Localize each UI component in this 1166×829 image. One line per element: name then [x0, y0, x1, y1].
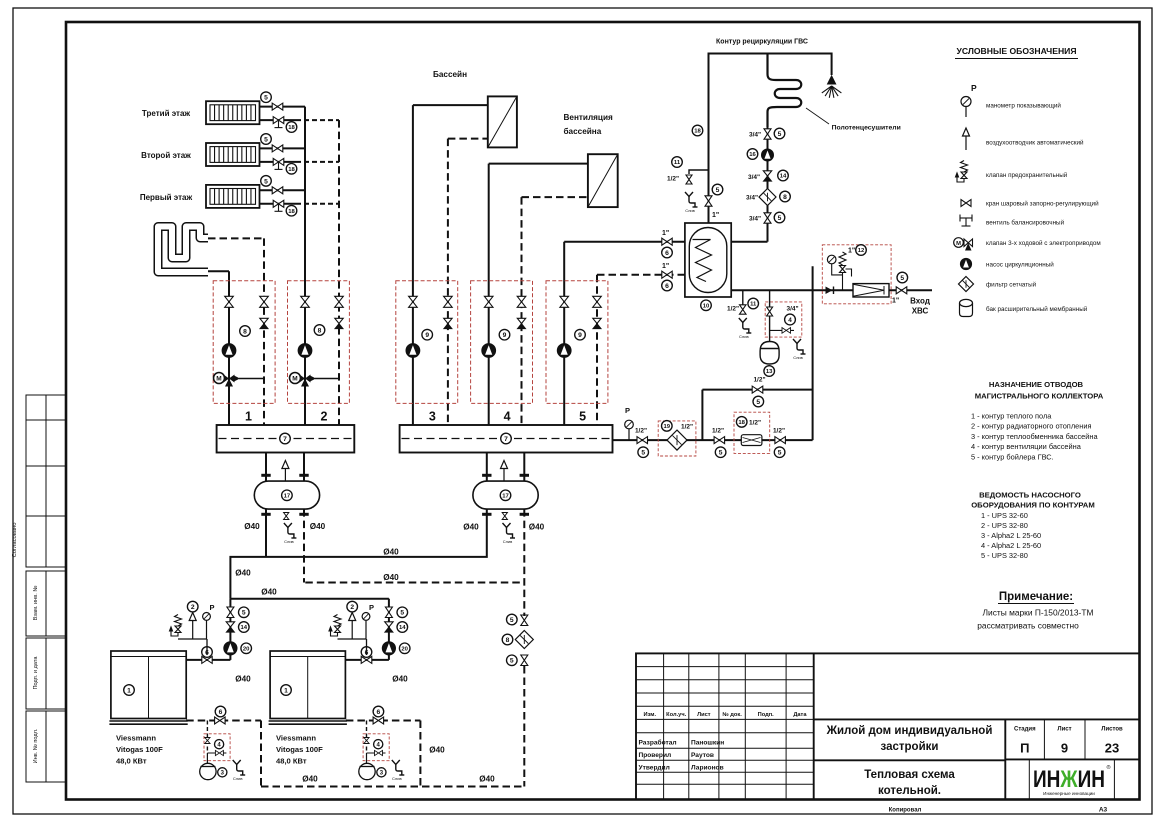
svg-text:Vitogas 100F: Vitogas 100F: [116, 745, 163, 754]
collector 2 body: [400, 425, 613, 453]
legend 3-way valve with actuator: [954, 238, 973, 251]
radiator return pipe dashed: [296, 203, 339, 205]
svg-text:48,0 КВт: 48,0 КВт: [116, 757, 147, 766]
circuit2 return riser: [338, 120, 340, 425]
svg-text:Изм.: Изм.: [644, 712, 657, 718]
air vent 2: [189, 613, 196, 640]
svg-text:18: 18: [288, 125, 295, 131]
svg-text:20: 20: [243, 646, 250, 652]
svg-text:3/4": 3/4": [749, 132, 761, 139]
svg-text:2: 2: [350, 604, 354, 611]
svg-text:Слив: Слив: [503, 539, 513, 544]
svg-text:Дата: Дата: [793, 712, 807, 718]
circuit 4 check valve: [517, 318, 525, 328]
collector 1 axis: [219, 438, 353, 440]
label (5): [774, 128, 785, 139]
svg-text:1: 1: [245, 410, 252, 424]
svg-text:23: 23: [1105, 741, 1119, 756]
svg-text:5: 5: [778, 215, 782, 222]
svg-text:Раутов: Раутов: [691, 752, 714, 759]
separator drain valve: [284, 513, 289, 520]
label (5): [638, 447, 649, 458]
legend expansion tank: [960, 299, 973, 316]
legend strainer filter: [959, 277, 974, 292]
svg-text:НАЗНАЧЕНИЕ ОТВОДОВ: НАЗНАЧЕНИЕ ОТВОДОВ: [989, 380, 1084, 389]
svg-text:Слив: Слив: [739, 334, 749, 339]
svg-text:14: 14: [241, 625, 248, 631]
legend ball valve: [961, 200, 971, 207]
circuit 2 return valve: [335, 296, 344, 307]
separator drain: [503, 523, 516, 538]
svg-text:Листы марки П-150/2013-ТМ: Листы марки П-150/2013-ТМ: [983, 608, 1094, 618]
circuit 3 return valve: [444, 296, 453, 307]
svg-text:клапан 3-х ходовой с электропр: клапан 3-х ходовой с электроприводом: [986, 239, 1101, 247]
svg-text:Ø40: Ø40: [310, 522, 326, 531]
separator outlet pipe: [303, 453, 305, 482]
boiler chain check valve 14: [385, 622, 393, 632]
make-up feed pipe: [613, 439, 813, 441]
return chain valve 5: [521, 615, 528, 626]
recirc pump 16: [762, 149, 774, 161]
separator2 return drop: [523, 509, 525, 614]
make-up strainer: [667, 430, 687, 450]
pool heat exchanger: [488, 96, 517, 147]
label (1): [124, 685, 135, 696]
svg-text:Ø40: Ø40: [244, 522, 260, 531]
svg-text:Тепловая схема: Тепловая схема: [864, 769, 955, 781]
pipe to expansion tank: [206, 753, 208, 763]
drain stub: [742, 290, 744, 305]
svg-text:Взам. инв. №: Взам. инв. №: [33, 586, 39, 621]
label (5): [753, 396, 764, 407]
svg-text:Стадия: Стадия: [1014, 727, 1036, 733]
svg-text:5 - UPS 32-80: 5 - UPS 32-80: [981, 551, 1028, 560]
collector 2 axis: [402, 438, 611, 440]
svg-text:1": 1": [662, 263, 669, 270]
svg-text:Viessmann: Viessmann: [116, 734, 156, 743]
svg-text:Vitogas 100F: Vitogas 100F: [276, 745, 323, 754]
svg-text:Слив: Слив: [685, 208, 695, 213]
label (9): [422, 329, 433, 340]
make-up unit red box: [204, 734, 230, 761]
boiler drain: [392, 760, 405, 775]
expansion branch pipe: [206, 721, 208, 754]
svg-text:5: 5: [778, 450, 782, 457]
svg-text:5: 5: [510, 658, 514, 665]
gauge stem: [628, 429, 630, 440]
svg-text:8: 8: [243, 328, 247, 335]
svg-text:5: 5: [510, 617, 514, 624]
label (16): [747, 149, 758, 160]
svg-text:воздухоотводчик автоматический: воздухоотводчик автоматический: [986, 139, 1084, 147]
separator air vent: [501, 461, 508, 482]
legend safety valve: [956, 161, 968, 183]
boiler chain pipe: [388, 599, 390, 660]
reducer stem: [842, 273, 844, 290]
svg-text:1 - UPS 32-60: 1 - UPS 32-60: [981, 511, 1028, 520]
radiator supply valve 5: [272, 187, 283, 194]
circuit 4 return valve: [517, 296, 526, 307]
svg-text:18: 18: [288, 167, 295, 173]
floor heating loop coil: [158, 227, 208, 273]
svg-text:3 - контур теплообменника басс: 3 - контур теплообменника бассейна: [971, 432, 1098, 441]
radiator balancing valve 18: [273, 200, 284, 207]
boiler chain pipe: [229, 599, 231, 660]
gauge connection: [832, 264, 843, 275]
svg-text:А3: А3: [1099, 807, 1108, 814]
svg-text:P: P: [625, 406, 630, 415]
svg-text:7: 7: [504, 436, 508, 443]
label (5): [507, 614, 518, 625]
label (7): [501, 433, 512, 444]
svg-text:5: 5: [756, 399, 760, 406]
circuit 1 pump: [222, 344, 236, 358]
svg-text:Полотенцесушители: Полотенцесушители: [832, 125, 901, 132]
label (18): [692, 125, 703, 136]
svg-text:рассматривать совместно: рассматривать совместно: [977, 621, 1079, 631]
circuit4 return riser: [521, 197, 523, 425]
svg-text:1": 1": [848, 248, 855, 255]
legend circulation pump: [960, 258, 971, 269]
boiler2 return drop: [419, 721, 421, 787]
small solenoid valve: [207, 752, 226, 754]
boiler2 valve 6: [361, 656, 372, 663]
radiator supply valve 5: [272, 145, 283, 152]
small solenoid valve: [367, 752, 386, 754]
boiler supply header lower: [230, 598, 389, 600]
label (1): [281, 685, 292, 696]
circuit 1 check valve: [260, 318, 268, 328]
return header: [305, 582, 524, 584]
small valve: [364, 738, 369, 744]
svg-text:1/2": 1/2": [712, 428, 724, 435]
svg-text:4 - контур вентиляции бассейна: 4 - контур вентиляции бассейна: [971, 442, 1082, 451]
svg-text:5: 5: [264, 178, 268, 185]
tank return pipe 1in: [597, 274, 685, 276]
label (4): [374, 740, 383, 749]
svg-text:9: 9: [425, 332, 429, 339]
svg-text:11: 11: [750, 302, 757, 308]
boiler drain: [233, 760, 246, 775]
circuit 2 3-way mixing valve with actuator: [290, 373, 340, 387]
svg-text:1/2": 1/2": [681, 423, 693, 430]
circuit2 supply riser: [304, 107, 306, 425]
safety group drop: [206, 639, 208, 655]
label (5): [507, 655, 518, 666]
check valve: [826, 287, 834, 295]
svg-text:Согласовано: Согласовано: [12, 523, 18, 558]
svg-text:бак расширительный мембранный: бак расширительный мембранный: [986, 305, 1088, 313]
svg-text:3 - Alpha2 L 25-60: 3 - Alpha2 L 25-60: [981, 531, 1041, 540]
svg-text:ОБОРУДОВАНИЯ ПО КОНТУРАМ: ОБОРУДОВАНИЯ ПО КОНТУРАМ: [971, 501, 1095, 510]
svg-text:1: 1: [127, 687, 131, 694]
svg-text:5: 5: [264, 136, 268, 143]
separator outlet pipe: [523, 453, 525, 482]
radiator floor 2: [206, 143, 260, 166]
svg-text:Слив: Слив: [233, 776, 243, 781]
svg-text:М: М: [956, 241, 961, 247]
svg-text:Второй этаж: Второй этаж: [141, 151, 191, 160]
circuit5 return riser: [596, 275, 598, 425]
label (6): [662, 247, 673, 258]
make-up valve: [767, 307, 773, 316]
label (8): [240, 326, 251, 337]
svg-text:Ø40: Ø40: [261, 588, 277, 597]
svg-text:10: 10: [703, 303, 710, 309]
svg-text:Контур рециркуляции ГВС: Контур рециркуляции ГВС: [716, 39, 808, 46]
bypass drop: [701, 390, 703, 441]
svg-text:20: 20: [401, 646, 408, 652]
flange ticks: [261, 475, 308, 514]
svg-text:клапан предохранительный: клапан предохранительный: [986, 171, 1068, 179]
svg-text:ВЕДОМОСТЬ НАСОСНОГО: ВЕДОМОСТЬ НАСОСНОГО: [979, 491, 1081, 500]
svg-text:5: 5: [242, 610, 246, 617]
radiator supply pipe: [260, 147, 306, 149]
svg-text:Жилой дом индивидуальной: Жилой дом индивидуальной: [826, 725, 993, 737]
circuit1 supply pipe from loop: [208, 270, 229, 272]
inlet unit red box 12: [822, 245, 891, 304]
svg-text:6: 6: [665, 283, 669, 290]
svg-text:Подп. и дата: Подп. и дата: [33, 656, 39, 690]
svg-text:Лист: Лист: [697, 712, 711, 718]
svg-text:2 - контур радиаторного отопле: 2 - контур радиаторного отопления: [971, 422, 1091, 431]
svg-text:Подп.: Подп.: [758, 712, 775, 718]
label (14): [239, 622, 250, 633]
towel rail: [768, 54, 802, 128]
label (3): [377, 768, 386, 777]
svg-text:ХВС: ХВС: [912, 307, 929, 316]
svg-text:Примечание:: Примечание:: [999, 591, 1073, 603]
radiator return pipe: [260, 203, 297, 205]
circuit 2 pump: [298, 344, 312, 358]
svg-text:P: P: [369, 603, 374, 612]
svg-text:18: 18: [288, 209, 295, 215]
legend pressure gauge: [961, 97, 971, 107]
magnetic filter: [853, 284, 889, 297]
boiler gauge: [203, 613, 211, 621]
safety group drop: [366, 639, 368, 655]
svg-text:кран шаровый запорно-регулирую: кран шаровый запорно-регулирующий: [986, 200, 1099, 208]
label (3): [218, 768, 227, 777]
circuit 3 pump: [406, 344, 420, 358]
balancing valve stem: [275, 204, 283, 212]
svg-text:3/4": 3/4": [787, 306, 799, 313]
legend balancing valve: [960, 215, 972, 227]
svg-text:9: 9: [1061, 741, 1068, 756]
flange ticks: [482, 475, 529, 514]
svg-text:Вентиляция: Вентиляция: [564, 113, 613, 122]
circuit 1 3-way mixing valve with actuator: [214, 373, 265, 387]
svg-text:17: 17: [502, 493, 509, 499]
svg-text:P: P: [971, 83, 977, 93]
svg-text:Паношкин: Паношкин: [691, 740, 724, 747]
svg-text:Лист: Лист: [1057, 727, 1071, 733]
svg-text:16: 16: [749, 152, 756, 158]
svg-text:Ø40: Ø40: [463, 523, 479, 532]
label (11): [672, 157, 683, 168]
left stamp table (sograsovano block): [26, 395, 66, 567]
separator inlet pipe: [265, 453, 267, 482]
svg-text:1: 1: [284, 687, 288, 694]
svg-text:Кол.уч.: Кол.уч.: [666, 712, 686, 718]
circuit 2 check valve: [335, 318, 343, 328]
cold water main: [731, 289, 932, 291]
boiler pump 20: [224, 642, 237, 655]
make-up riser: [812, 266, 814, 440]
drain valve: [740, 305, 747, 314]
bottom return collector: [261, 786, 524, 788]
svg-text:1/2": 1/2": [635, 428, 647, 435]
inlet valve 5: [896, 287, 907, 294]
circuit 3 check valve: [444, 318, 452, 328]
separator body: [254, 481, 319, 509]
svg-text:9: 9: [503, 332, 507, 339]
drain branch pipe: [689, 170, 709, 174]
recirc valve 5: [705, 196, 712, 206]
label (5): [261, 134, 272, 145]
boiler Viessmann Vitogas 100F: [269, 651, 347, 724]
bypass pipe: [702, 389, 812, 391]
gauge stem: [965, 107, 967, 118]
circuit3 return pipe: [448, 138, 488, 140]
separator1 supply drop: [265, 509, 267, 557]
svg-text:6: 6: [665, 250, 669, 257]
label (9): [575, 329, 586, 340]
make-up red box: [765, 302, 802, 337]
label (5): [397, 607, 408, 618]
svg-text:18: 18: [738, 420, 745, 426]
make-up valve 5: [637, 437, 648, 444]
svg-text:МАГИСТРАЛЬНОГО КОЛЛЕКТОРА: МАГИСТРАЛЬНОГО КОЛЛЕКТОРА: [975, 392, 1104, 401]
svg-text:фильтр сетчатый: фильтр сетчатый: [986, 281, 1037, 289]
separator body: [473, 481, 538, 509]
label (5): [261, 176, 272, 187]
gauge stem: [206, 620, 208, 639]
INZHIN logo: [1033, 764, 1111, 796]
svg-text:18: 18: [694, 129, 701, 135]
svg-text:Копировал: Копировал: [889, 808, 922, 814]
svg-text:ИНЖИН: ИНЖИН: [1033, 766, 1105, 793]
label (8): [502, 634, 513, 645]
svg-text:Разработал: Разработал: [639, 739, 677, 747]
boiler2 return valve 6: [373, 717, 384, 724]
boiler chain valve 5: [385, 607, 392, 618]
recirc valve 5: [764, 213, 771, 223]
label (8): [780, 191, 791, 202]
label (18): [736, 417, 747, 428]
svg-text:1/2": 1/2": [667, 176, 679, 183]
radiator supply valve 5: [272, 103, 283, 110]
circuit 1 dashed outline: [213, 281, 275, 404]
circuit 3 supply valve: [409, 296, 418, 307]
circuit 5 return valve: [593, 296, 602, 307]
label (5): [261, 92, 272, 103]
expansion branch pipe: [366, 721, 368, 754]
shower head: [822, 76, 842, 98]
svg-text:манометр показывающий: манометр показывающий: [986, 102, 1061, 110]
circuit1 supply riser: [228, 271, 230, 425]
radiator return pipe dashed: [296, 119, 339, 121]
svg-text:застройки: застройки: [881, 741, 939, 753]
svg-text:Вход: Вход: [910, 297, 930, 306]
svg-text:1/2": 1/2": [749, 419, 761, 426]
label (5): [715, 447, 726, 458]
boiler1 supply connection: [186, 659, 230, 661]
expansion tank 3: [200, 763, 216, 779]
label (17): [282, 490, 293, 501]
svg-text:3/4": 3/4": [748, 174, 760, 181]
legend underline: [955, 58, 1078, 60]
circuit4 supply pipe: [489, 163, 588, 165]
svg-text:1 - контур теплого пола: 1 - контур теплого пола: [971, 412, 1052, 421]
inlet gauge: [827, 255, 836, 264]
circuit 5 supply valve: [560, 296, 569, 307]
make-up valve 5: [714, 437, 725, 444]
boiler1 return drop: [260, 721, 262, 787]
svg-text:3/4": 3/4": [749, 216, 761, 223]
svg-text:Ø40: Ø40: [383, 573, 399, 582]
circuit 4 pump: [482, 344, 496, 358]
svg-text:5: 5: [579, 410, 586, 424]
label (5): [712, 184, 723, 195]
boiler2 supply connection: [346, 659, 389, 661]
balancing valve stem: [275, 120, 283, 128]
chain joint: [523, 614, 525, 616]
svg-text:бассейна: бассейна: [564, 126, 602, 136]
return chain valve 5: [521, 655, 528, 666]
svg-text:2: 2: [321, 410, 328, 424]
svg-text:5: 5: [778, 131, 782, 138]
return strainer 8: [515, 631, 533, 649]
svg-text:5: 5: [400, 610, 404, 617]
pool ventilation heat exchanger: [588, 154, 618, 207]
svg-text:насос циркуляционный: насос циркуляционный: [986, 261, 1054, 269]
boiler1 return valve 6: [215, 717, 226, 724]
svg-text:Ø40: Ø40: [529, 523, 545, 532]
svg-text:Бассейн: Бассейн: [433, 70, 467, 79]
svg-text:котельной.: котельной.: [878, 785, 941, 797]
boiler safety valve: [329, 615, 341, 637]
svg-text:вентиль балансировочный: вентиль балансировочный: [986, 219, 1065, 227]
svg-text:8: 8: [318, 327, 322, 334]
svg-text:®: ®: [1107, 764, 1111, 771]
expansion tank 3: [359, 763, 375, 779]
circuit 4 supply valve: [484, 296, 493, 307]
separator1 return drop: [303, 509, 305, 582]
svg-text:3/4": 3/4": [746, 195, 758, 202]
boiler1 return pipe: [186, 720, 261, 722]
label (20): [241, 643, 252, 654]
recirc chain pipe: [767, 127, 769, 242]
svg-text:7: 7: [283, 436, 287, 443]
svg-text:Ø40: Ø40: [235, 569, 251, 578]
label (5): [897, 272, 908, 283]
svg-text:Viessmann: Viessmann: [276, 734, 316, 743]
label (4): [785, 314, 796, 325]
return chain lower pipe: [523, 666, 525, 787]
make-up gauge: [625, 420, 634, 429]
svg-text:Первый этаж: Первый этаж: [140, 193, 193, 202]
circuit3 return riser: [447, 139, 449, 425]
svg-text:1": 1": [662, 230, 669, 237]
circuit 5 dashed outline: [546, 281, 608, 404]
svg-text:5: 5: [719, 450, 723, 457]
svg-text:12: 12: [858, 248, 865, 254]
make-up unit red box: [363, 734, 389, 761]
svg-text:Ø40: Ø40: [302, 775, 318, 784]
left stamp cells: vzam inv, podp i data, inv n podl: [26, 571, 66, 782]
circuit4 return pipe: [522, 196, 588, 198]
